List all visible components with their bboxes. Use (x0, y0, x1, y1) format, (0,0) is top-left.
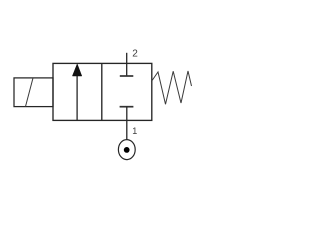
blocked port T-bar bottom (120, 106, 134, 108)
svg-text:2: 2 (132, 49, 138, 60)
blocked port T-bar top (120, 75, 134, 77)
flow arrow shaft (76, 75, 78, 120)
port 1 line (126, 107, 128, 140)
return spring (151, 71, 191, 104)
port 2 stub (126, 53, 128, 76)
svg-text:1: 1 (132, 126, 137, 136)
solenoid Y1 diagonal (26, 78, 34, 107)
solenoid Y1 box (14, 78, 53, 107)
valve position divider (101, 63, 103, 120)
port 1 connection dot (124, 147, 130, 153)
port 1 connection circle (118, 140, 135, 160)
flow arrow head (72, 64, 81, 76)
valve body outline (53, 63, 152, 120)
